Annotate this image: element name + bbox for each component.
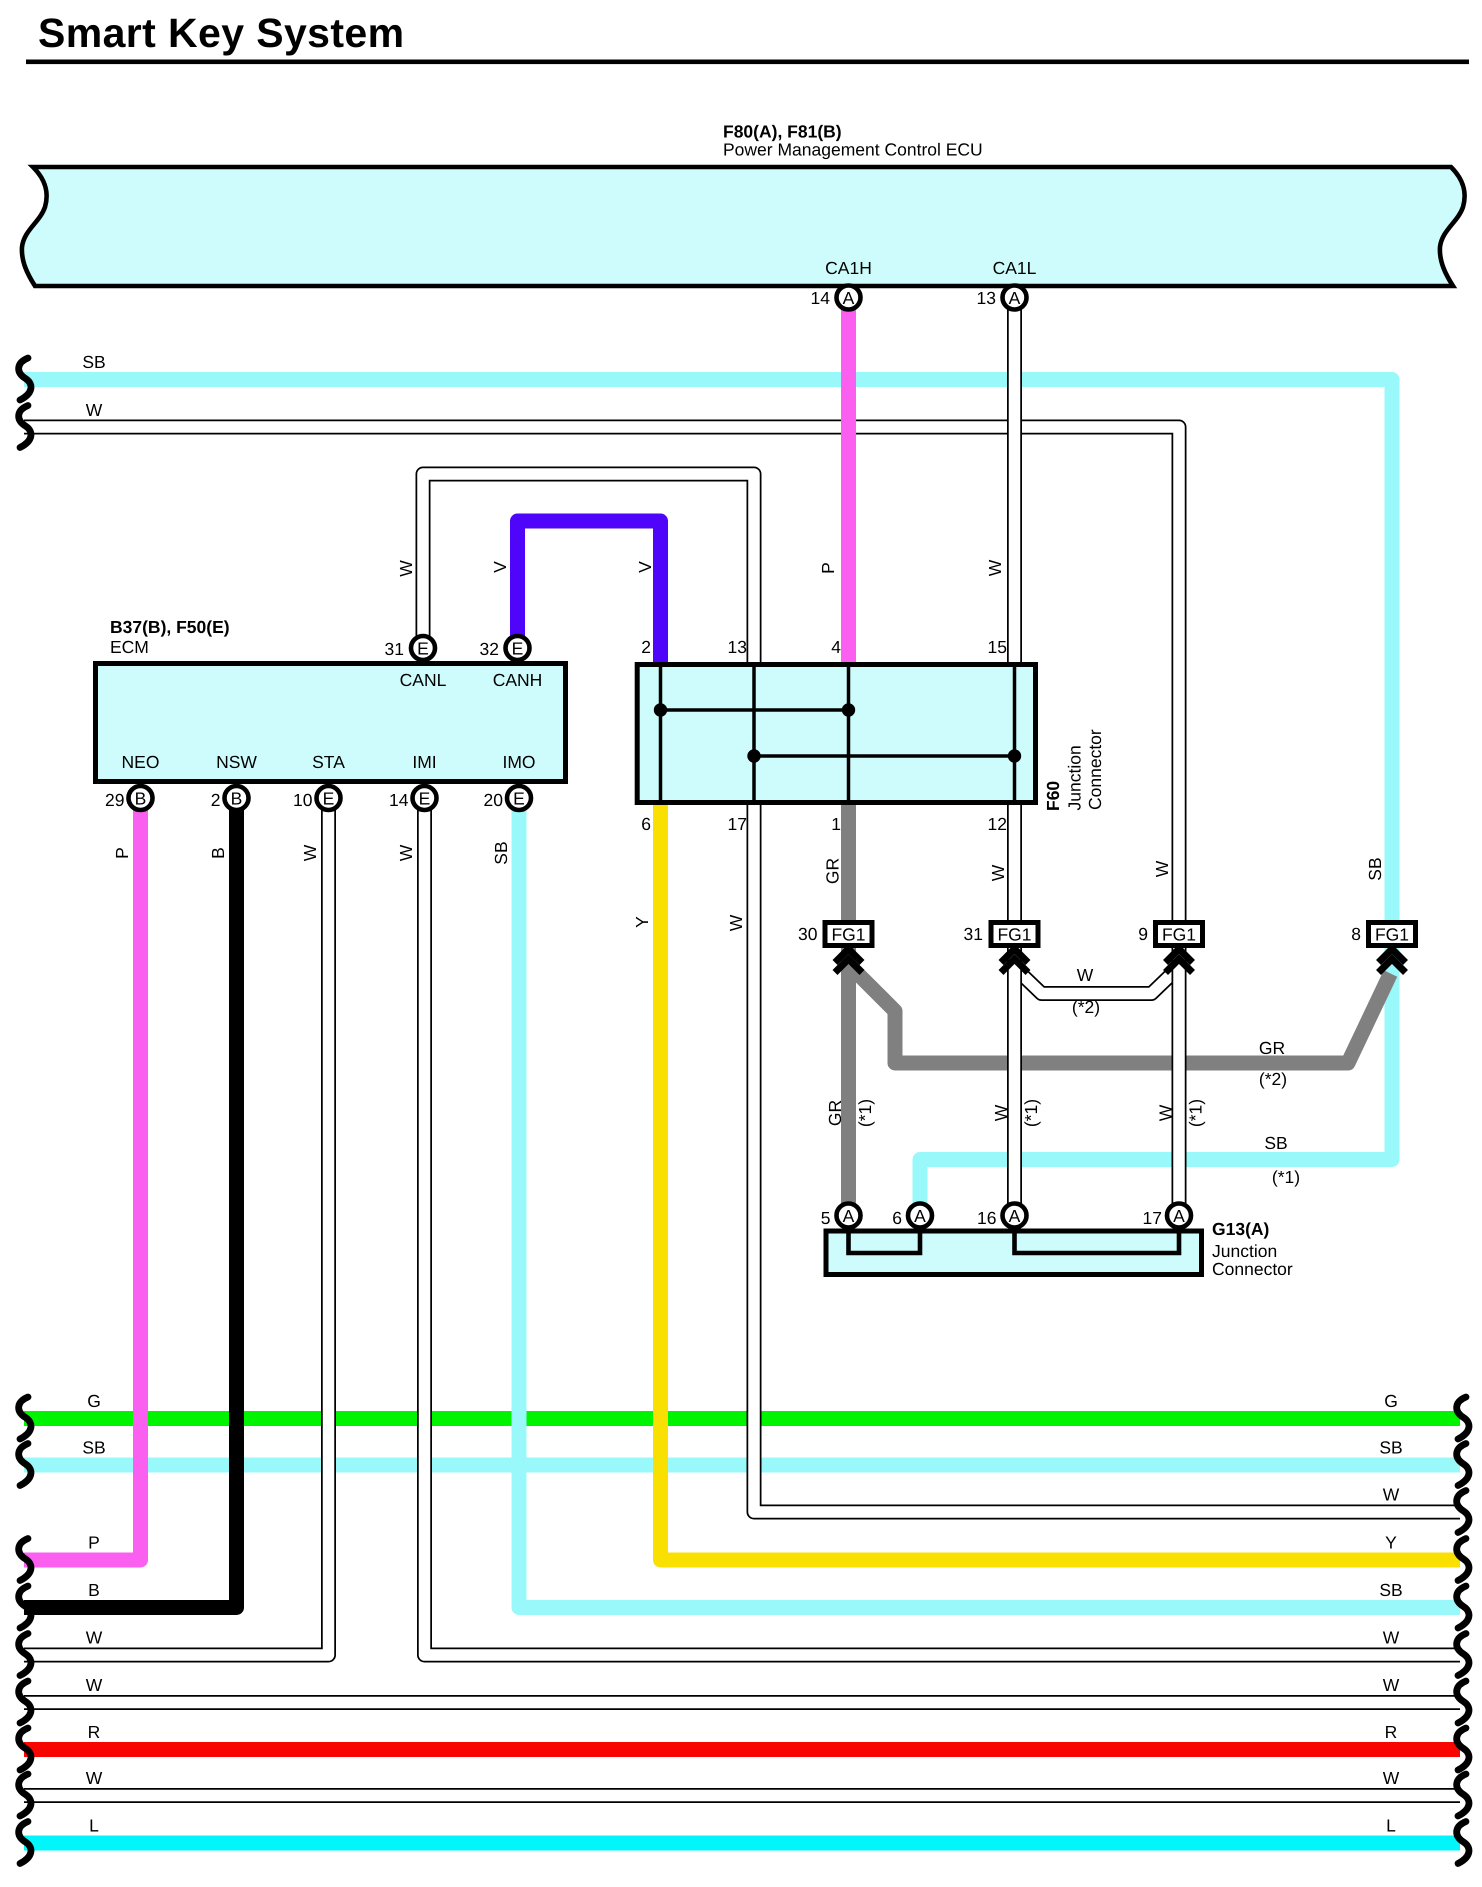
wire GR (gray, F60 pin 1 to FG1 no.30) bbox=[841, 803, 856, 922]
svg-text:Connector: Connector bbox=[1085, 729, 1105, 810]
svg-text:1: 1 bbox=[831, 814, 841, 834]
connector FG1 no.8 (box) bbox=[1369, 923, 1416, 946]
svg-text:W: W bbox=[396, 844, 416, 861]
svg-text:15: 15 bbox=[988, 637, 1007, 657]
svg-text:A: A bbox=[843, 1206, 855, 1226]
pin 14 (A) on PMC ECU bbox=[837, 286, 861, 310]
wire W (*2) (white, FG1 no.31 to FG1 no.9) bbox=[1016, 969, 1177, 994]
svg-text:E: E bbox=[323, 789, 335, 809]
svg-text:L: L bbox=[89, 1816, 99, 1836]
pin 17 (A) on G13 bbox=[1167, 1204, 1191, 1228]
svg-text:13: 13 bbox=[728, 637, 747, 657]
svg-text:Connector: Connector bbox=[1212, 1259, 1293, 1279]
svg-text:FG1: FG1 bbox=[997, 925, 1031, 945]
svg-text:SB: SB bbox=[1379, 1580, 1402, 1600]
F60 junction dot at pin13 column bbox=[747, 749, 760, 762]
svg-text:W: W bbox=[86, 1768, 103, 1788]
svg-text:(*2): (*2) bbox=[1072, 997, 1100, 1017]
svg-text:FG1: FG1 bbox=[1375, 925, 1409, 945]
wire break squiggle left (P) bbox=[19, 1539, 31, 1581]
wire break squiggle left (R) bbox=[19, 1728, 31, 1770]
svg-text:P: P bbox=[818, 562, 838, 574]
svg-text:CA1L: CA1L bbox=[993, 258, 1037, 278]
svg-text:SB: SB bbox=[1379, 1438, 1402, 1458]
svg-text:STA: STA bbox=[312, 752, 345, 772]
pin 10 (E) on ECM bbox=[317, 786, 341, 810]
title underline bbox=[26, 60, 1469, 65]
svg-text:30: 30 bbox=[798, 924, 818, 944]
svg-text:12: 12 bbox=[988, 814, 1007, 834]
svg-text:10: 10 bbox=[293, 790, 313, 810]
pin 29 (B) on ECM bbox=[129, 786, 153, 810]
svg-text:CANL: CANL bbox=[400, 670, 447, 690]
svg-text:SB: SB bbox=[82, 1438, 105, 1458]
wire break squiggle left (W STA) bbox=[19, 1634, 31, 1676]
wire break squiggle left (W row4) bbox=[19, 1774, 31, 1816]
pin 2 (B) on ECM bbox=[225, 786, 249, 810]
svg-text:Junction: Junction bbox=[1065, 745, 1085, 810]
svg-text:W: W bbox=[86, 1628, 103, 1648]
pin 32 (E) on ECM bbox=[506, 636, 530, 660]
svg-text:L: L bbox=[1386, 1816, 1396, 1836]
svg-text:V: V bbox=[635, 561, 655, 573]
svg-text:29: 29 bbox=[105, 790, 124, 810]
svg-text:B: B bbox=[88, 1580, 100, 1600]
wire W (white, F60 pin 17 to right edge) bbox=[754, 803, 1460, 1512]
connector F60 junction connector (box) bbox=[637, 665, 1035, 803]
svg-text:FG1: FG1 bbox=[831, 925, 865, 945]
connector FG1 no.30 (box) bbox=[825, 923, 872, 946]
svg-text:W: W bbox=[985, 559, 1005, 576]
F60 internal link row 2 bbox=[754, 754, 1015, 758]
svg-text:SB: SB bbox=[1264, 1133, 1287, 1153]
svg-text:IMO: IMO bbox=[502, 752, 535, 772]
wire break squiggle left (SB) bbox=[19, 1444, 31, 1486]
svg-text:ECM: ECM bbox=[110, 637, 149, 657]
wire W (white, ECM pin 10 STA to left edge) bbox=[24, 800, 329, 1655]
svg-text:(*1): (*1) bbox=[1021, 1099, 1041, 1127]
wire SB (pale cyan, ECM pin 20 IMO to right edge) bbox=[519, 800, 1460, 1608]
shield chevrons below FG1 no.30 bbox=[835, 949, 862, 973]
svg-text:G: G bbox=[1384, 1391, 1398, 1411]
svg-text:P: P bbox=[112, 847, 132, 859]
svg-text:A: A bbox=[1009, 1206, 1021, 1226]
wire break squiggle left (SB top) bbox=[19, 358, 31, 400]
svg-text:W: W bbox=[1383, 1768, 1400, 1788]
svg-text:9: 9 bbox=[1138, 924, 1148, 944]
svg-text:2: 2 bbox=[641, 637, 651, 657]
svg-text:B: B bbox=[135, 789, 147, 809]
wire SB (*1) (pale cyan, FG1 no.8 to G13 pin 6) bbox=[920, 946, 1392, 1205]
svg-text:(*2): (*2) bbox=[1259, 1069, 1287, 1089]
svg-text:E: E bbox=[417, 639, 429, 659]
svg-text:Y: Y bbox=[1385, 1533, 1397, 1553]
svg-text:A: A bbox=[843, 288, 855, 308]
wire break squiggle left (B) bbox=[19, 1586, 31, 1628]
wire break squiggle right (W row4) bbox=[1457, 1774, 1469, 1816]
svg-text:SB: SB bbox=[82, 352, 105, 372]
svg-text:W: W bbox=[1383, 1675, 1400, 1695]
svg-text:W: W bbox=[86, 400, 103, 420]
svg-text:W: W bbox=[1156, 1104, 1176, 1121]
svg-text:IMI: IMI bbox=[412, 752, 436, 772]
wire W (white, left edge to FG1 no.9) bbox=[24, 427, 1179, 922]
svg-text:NSW: NSW bbox=[216, 752, 257, 772]
shield chevrons below FG1 no.9 bbox=[1166, 949, 1193, 973]
svg-text:V: V bbox=[490, 561, 510, 573]
wire W CA1L (white, PMC ECU pin 13 to F60 pin 15) bbox=[1007, 300, 1022, 664]
svg-text:B: B bbox=[208, 847, 228, 859]
F60 internal bus line pin 13-17 bbox=[752, 664, 756, 803]
wire Y (yellow, F60 pin 6 to right edge) bbox=[661, 803, 1461, 1560]
svg-text:GR: GR bbox=[823, 858, 843, 884]
wire break squiggle right (W row3) bbox=[1457, 1681, 1469, 1723]
svg-text:A: A bbox=[1173, 1206, 1185, 1226]
shield chevrons below FG1 no.31 bbox=[1001, 949, 1028, 973]
svg-text:14: 14 bbox=[811, 288, 831, 308]
wire B (black, ECM pin 2 NSW to left edge) bbox=[24, 800, 237, 1608]
connector F80(A) F81(B) Power Management Control ECU (torn-edge box) bbox=[22, 167, 1465, 286]
wire break squiggle right (SB IMO) bbox=[1457, 1586, 1469, 1628]
wire G (green, full width bottom) bbox=[24, 1411, 1460, 1426]
svg-text:W: W bbox=[991, 1104, 1011, 1121]
svg-text:17: 17 bbox=[728, 814, 747, 834]
svg-text:SB: SB bbox=[491, 841, 511, 864]
svg-text:FG1: FG1 bbox=[1162, 925, 1196, 945]
svg-text:Power Management Control ECU: Power Management Control ECU bbox=[723, 140, 983, 160]
svg-text:6: 6 bbox=[641, 814, 651, 834]
svg-text:W: W bbox=[1077, 965, 1094, 985]
svg-text:2: 2 bbox=[211, 790, 221, 810]
svg-text:17: 17 bbox=[1143, 1208, 1162, 1228]
svg-text:Junction: Junction bbox=[1212, 1241, 1277, 1261]
wire V CANH (violet, ECM pin 32 to F60 pin 2) bbox=[518, 521, 661, 664]
wire SB (pale cyan, full width bottom) bbox=[24, 1458, 1460, 1473]
wire break squiggle right (W IMI) bbox=[1457, 1634, 1469, 1676]
svg-text:W: W bbox=[86, 1675, 103, 1695]
svg-text:CA1H: CA1H bbox=[825, 258, 872, 278]
pin 16 (A) on G13 bbox=[1003, 1204, 1027, 1228]
svg-text:W: W bbox=[1383, 1485, 1400, 1505]
wire W (*1) (white, FG1 no.31 to G13 pin 16) bbox=[1007, 946, 1022, 1205]
connector FG1 no.9 (box) bbox=[1156, 923, 1203, 946]
svg-text:W: W bbox=[1383, 1628, 1400, 1648]
wire SB (pale cyan, left edge to FG1 no.8) bbox=[24, 380, 1392, 923]
svg-text:W: W bbox=[726, 914, 746, 931]
wire break squiggle left (L) bbox=[19, 1822, 31, 1864]
F60 internal bus line pin 2-6 bbox=[659, 664, 663, 803]
svg-text:GR: GR bbox=[1259, 1038, 1285, 1058]
F60 internal link row 1 bbox=[661, 708, 849, 712]
wire break squiggle right (L) bbox=[1457, 1822, 1469, 1864]
wire break squiggle right (R) bbox=[1457, 1728, 1469, 1770]
G13 internal bracket pins 16-17 bbox=[1015, 1231, 1180, 1253]
svg-text:CANH: CANH bbox=[493, 670, 543, 690]
svg-text:Y: Y bbox=[632, 916, 652, 928]
wire break squiggle right (SB) bbox=[1457, 1444, 1469, 1486]
wire break squiggle left (W top) bbox=[19, 406, 31, 448]
svg-text:31: 31 bbox=[385, 639, 404, 659]
F60 junction dot at pin2 column bbox=[654, 703, 667, 716]
svg-text:W: W bbox=[1152, 860, 1172, 877]
wire W CANL (white, ECM pin 31 to F60 pin 13) bbox=[423, 474, 754, 664]
svg-text:W: W bbox=[396, 560, 416, 577]
svg-text:A: A bbox=[1009, 288, 1021, 308]
svg-text:20: 20 bbox=[484, 790, 504, 810]
svg-text:SB: SB bbox=[1365, 857, 1385, 880]
connector B37(B) F50(E) ECM (box) bbox=[96, 664, 566, 782]
wire GR (*2) (gray, FG1 no.30 to FG1 no.8) bbox=[851, 967, 1391, 1063]
svg-text:E: E bbox=[512, 639, 524, 659]
connector G13(A) junction connector (box) bbox=[826, 1231, 1202, 1275]
pin 13 (A) on PMC ECU bbox=[1003, 286, 1027, 310]
wire W (white, full width row 4) bbox=[24, 1788, 1460, 1803]
F60 internal bus line pin 15-12 bbox=[1013, 664, 1017, 803]
svg-text:8: 8 bbox=[1351, 924, 1361, 944]
svg-text:A: A bbox=[914, 1206, 926, 1226]
svg-text:W: W bbox=[988, 864, 1008, 881]
svg-text:G: G bbox=[87, 1391, 101, 1411]
wire P (pink, ECM pin 29 NEO to left edge) bbox=[24, 800, 141, 1560]
svg-text:B37(B), F50(E): B37(B), F50(E) bbox=[110, 617, 230, 637]
wire W (white, F60 pin 12 to FG1 no.31) bbox=[1007, 803, 1022, 922]
svg-text:P: P bbox=[88, 1533, 100, 1553]
svg-text:G13(A): G13(A) bbox=[1212, 1219, 1269, 1239]
wire W (*1) (white, FG1 no.9 to G13 pin 17) bbox=[1172, 946, 1187, 1205]
svg-text:13: 13 bbox=[977, 288, 996, 308]
wire P CA1H (pink, PMC ECU pin 14 to F60 pin 4) bbox=[841, 300, 856, 664]
wire break squiggle right (W pin17) bbox=[1457, 1491, 1469, 1533]
wire break squiggle right (Y) bbox=[1457, 1539, 1469, 1581]
svg-text:F80(A), F81(B): F80(A), F81(B) bbox=[723, 122, 842, 142]
wire W (white, full width row 3) bbox=[24, 1695, 1460, 1710]
svg-text:W: W bbox=[300, 844, 320, 861]
svg-text:6: 6 bbox=[892, 1208, 902, 1228]
svg-text:Smart Key System: Smart Key System bbox=[38, 10, 404, 56]
wire R (red, full width bottom) bbox=[24, 1742, 1460, 1757]
wire break squiggle right (G) bbox=[1457, 1397, 1469, 1439]
svg-text:(*1): (*1) bbox=[1272, 1167, 1300, 1187]
pin 5 (A) on G13 bbox=[837, 1204, 861, 1228]
svg-text:4: 4 bbox=[831, 637, 841, 657]
wire GR (*1) (gray, FG1 no.30 to G13 pin 5) bbox=[841, 946, 856, 1205]
wire L (bright cyan, full width bottom) bbox=[24, 1836, 1460, 1851]
pin 31 (E) on ECM bbox=[411, 636, 435, 660]
svg-text:31: 31 bbox=[964, 924, 983, 944]
F60 junction dot at pin4 column bbox=[842, 703, 855, 716]
pin 6 (A) on G13 bbox=[908, 1204, 932, 1228]
F60 junction dot at pin15 column bbox=[1008, 749, 1021, 762]
G13 internal bracket pins 5-6 bbox=[849, 1231, 921, 1253]
svg-text:14: 14 bbox=[389, 790, 409, 810]
svg-text:B: B bbox=[231, 789, 243, 809]
wire break squiggle left (W row3) bbox=[19, 1681, 31, 1723]
svg-text:32: 32 bbox=[480, 639, 499, 659]
F60 internal bus line pin 4-1 bbox=[847, 664, 851, 803]
svg-text:GR: GR bbox=[825, 1100, 845, 1126]
svg-text:NEO: NEO bbox=[122, 752, 160, 772]
connector FG1 no.31 (box) bbox=[991, 923, 1038, 946]
svg-text:R: R bbox=[1385, 1722, 1398, 1742]
svg-text:R: R bbox=[88, 1722, 101, 1742]
wire break squiggle left (G) bbox=[19, 1397, 31, 1439]
shield chevrons below FG1 no.8 bbox=[1379, 949, 1406, 973]
svg-text:E: E bbox=[513, 789, 525, 809]
wire W (white, ECM pin 14 IMI to right edge) bbox=[425, 800, 1461, 1655]
pin 14 (E) on ECM bbox=[413, 786, 437, 810]
svg-text:5: 5 bbox=[821, 1208, 831, 1228]
pin 20 (E) on ECM bbox=[507, 786, 531, 810]
svg-text:F60: F60 bbox=[1043, 781, 1063, 811]
svg-text:16: 16 bbox=[977, 1208, 996, 1228]
svg-text:(*1): (*1) bbox=[855, 1099, 875, 1127]
svg-text:E: E bbox=[419, 789, 431, 809]
svg-text:(*1): (*1) bbox=[1186, 1099, 1206, 1127]
